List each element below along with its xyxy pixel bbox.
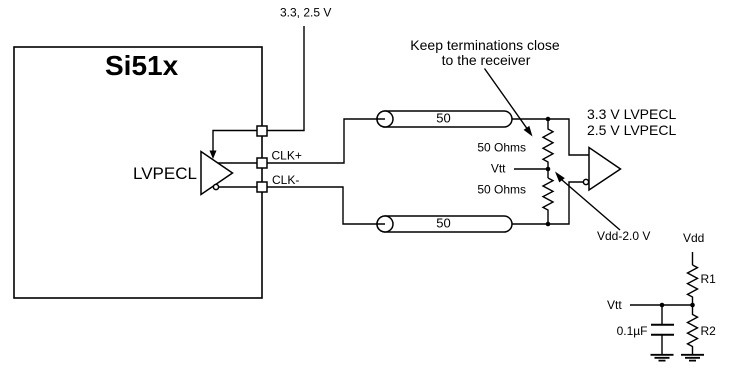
junction Vtt xyxy=(546,167,551,172)
ground (under R2) xyxy=(681,355,704,361)
junction cap xyxy=(660,303,665,308)
pad square CLK- xyxy=(257,182,267,192)
driver buffer LVPECL xyxy=(201,152,233,195)
svg-text:Vdd: Vdd xyxy=(683,231,704,245)
arrowhead into driver xyxy=(210,151,217,160)
svg-text:R2: R2 xyxy=(701,324,717,338)
svg-text:3.3 V LVPECL: 3.3 V LVPECL xyxy=(587,106,676,122)
svg-text:LVPECL: LVPECL xyxy=(133,164,197,183)
svg-text:Vtt: Vtt xyxy=(491,162,506,176)
transmission line T2 (bottom, 50 ohm) xyxy=(377,216,512,232)
receiver buffer U2 xyxy=(589,148,621,191)
resistor RT1 50 Ohms (top termination) xyxy=(543,119,553,178)
svg-text:R1: R1 xyxy=(701,272,717,286)
svg-text:2.5 V LVPECL: 2.5 V LVPECL xyxy=(587,122,676,138)
svg-text:CLK+: CLK+ xyxy=(272,149,302,163)
svg-text:50 Ohms: 50 Ohms xyxy=(477,141,526,155)
wire: CLK+ from driver to pad xyxy=(218,162,258,164)
svg-text:Si51x: Si51x xyxy=(105,50,179,81)
resistor RT2 50 Ohms (bottom termination) xyxy=(543,178,553,224)
wire: CLK- from bubble to pad xyxy=(219,186,258,188)
svg-text:50 Ohms: 50 Ohms xyxy=(477,183,526,197)
pointer arrow Vdd-2.0V to Vtt node xyxy=(562,180,620,230)
driver inversion bubble xyxy=(213,184,218,189)
svg-text:50: 50 xyxy=(436,111,450,126)
IC body Si51x xyxy=(14,47,262,298)
wire: Vtt stub xyxy=(514,168,548,170)
svg-text:CLK-: CLK- xyxy=(272,173,299,187)
transmission line T1 (top, 50 ohm) xyxy=(377,111,512,127)
capacitor C1 0.1uF xyxy=(661,305,663,325)
wire: CLK+ pad to top transmission line xyxy=(267,119,385,163)
ground (under C1) xyxy=(651,355,674,361)
pointer arrow from note to termination xyxy=(485,69,528,129)
wire: top line to receiver xyxy=(512,119,589,155)
svg-text:Vtt: Vtt xyxy=(607,298,622,312)
resistor R2 xyxy=(688,305,698,354)
wire: Vtt row xyxy=(630,304,693,306)
svg-text:0.1µF: 0.1µF xyxy=(617,324,648,338)
wire: bottom line to receiver bubble xyxy=(512,182,584,224)
wire: CLK- pad to bottom transmission line xyxy=(267,187,385,224)
receiver inversion bubble xyxy=(583,179,588,184)
junction R2 xyxy=(690,303,695,308)
pad square CLK+ xyxy=(257,158,267,168)
svg-text:to the receiver: to the receiver xyxy=(442,52,531,68)
resistor R1 xyxy=(688,265,698,305)
pad square (VDD) xyxy=(257,126,267,136)
svg-text:Keep terminations close: Keep terminations close xyxy=(410,37,560,53)
svg-text:50: 50 xyxy=(436,216,450,231)
svg-text:Vdd-2.0 V: Vdd-2.0 V xyxy=(597,229,650,243)
svg-text:3.3, 2.5 V: 3.3, 2.5 V xyxy=(280,6,331,20)
junction top xyxy=(546,117,551,122)
wire: supply branch to driver with arrow xyxy=(213,131,257,152)
wire: 3.3/2.5V supply drop to pad xyxy=(262,26,304,131)
wire: Vdd to R1 xyxy=(692,252,694,265)
junction bottom xyxy=(546,222,551,227)
